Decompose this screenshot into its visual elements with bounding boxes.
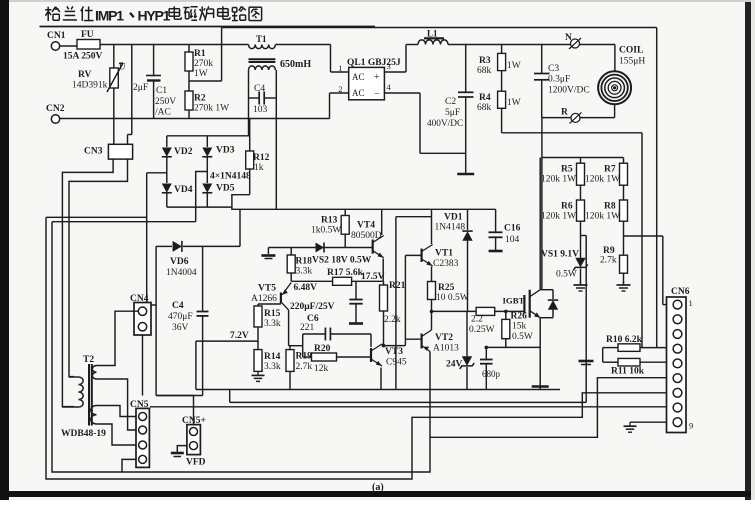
wire pin7 route (46, 217, 667, 479)
wire N bus y=118.5 (60, 118, 330, 120)
wire R1-R2 tap to top sense line (189, 80, 222, 82)
title (47, 7, 49, 21)
svg-text:AC: AC (352, 72, 365, 82)
svg-text:120k 1W: 120k 1W (541, 175, 576, 185)
svg-text:0.5W: 0.5W (512, 332, 533, 342)
wire VT1 collector (431, 209, 433, 244)
svg-text:A1013: A1013 (433, 344, 459, 354)
svg-text:VS1 9.1V: VS1 9.1V (541, 250, 579, 260)
svg-text:C2: C2 (445, 97, 456, 107)
svg-text:270k: 270k (194, 59, 213, 69)
wire VD6 anode column (155, 246, 157, 395)
wire CN3 to T2 primary top (69, 159, 128, 377)
svg-text:120k 1W: 120k 1W (541, 212, 576, 222)
svg-text:15A 250V: 15A 250V (63, 52, 102, 62)
svg-text:R5: R5 (561, 165, 573, 175)
wire T2 sec2 top to CN5 pin1 (97, 406, 137, 417)
svg-text:270k 1W: 270k 1W (194, 104, 229, 114)
svg-text:R9: R9 (603, 246, 615, 256)
svg-text:AC: AC (352, 88, 365, 98)
svg-text:VD5: VD5 (216, 184, 235, 194)
svg-text:103: 103 (253, 105, 268, 115)
svg-text:R25: R25 (438, 283, 455, 293)
wire coil top (614, 45, 616, 72)
svg-text:220μF/25V: 220μF/25V (290, 302, 335, 312)
wire IGBT collector column (541, 118, 543, 290)
wire DC+ bus y=44.5 (448, 44, 615, 46)
svg-text:1: 1 (338, 63, 342, 73)
wire IGBT emitter down (539, 318, 541, 390)
svg-text:C2383: C2383 (433, 259, 459, 269)
svg-text:CN1: CN1 (47, 31, 66, 41)
wire bridge mid-left to frame (147, 172, 167, 174)
wire CN5+ feed (155, 395, 157, 397)
svg-text:VD3: VD3 (216, 146, 235, 156)
svg-text:R12: R12 (253, 153, 270, 163)
page border bars (0, 0, 9, 500)
svg-text:1W: 1W (507, 61, 521, 71)
wire pin9 ground (630, 421, 667, 423)
svg-text:VT1: VT1 (435, 249, 453, 259)
wire CN3 pin2 up to L bus (131, 45, 133, 135)
svg-text:R8: R8 (604, 202, 616, 212)
wire VT5 collector down (288, 310, 290, 346)
ground IGBT emitter bar (532, 385, 549, 388)
svg-text:VD1: VD1 (444, 213, 463, 223)
svg-text:A1266: A1266 (251, 294, 277, 304)
svg-text:VD2: VD2 (174, 147, 193, 157)
wire bus B y=402.4 (230, 401, 587, 403)
ground mid bar (579, 360, 594, 363)
wire VT5 base to R15 (258, 303, 281, 305)
svg-text:VT2: VT2 (435, 333, 453, 343)
svg-text:2.7k: 2.7k (296, 362, 313, 372)
svg-text:COIL: COIL (619, 46, 643, 56)
svg-text:400V/DC: 400V/DC (427, 119, 463, 129)
svg-text:R6: R6 (561, 202, 573, 212)
wire QL1 pin4 to negative bus (384, 92, 420, 94)
svg-text:C4: C4 (172, 301, 184, 311)
svg-text:IGBT: IGBT (503, 296, 525, 306)
svg-text:VT4: VT4 (357, 221, 375, 231)
wire R26 bottom to emitter (486, 346, 540, 348)
svg-text:C16: C16 (504, 224, 521, 234)
svg-text:2: 2 (338, 84, 342, 94)
svg-text:R: R (561, 108, 568, 118)
svg-text:2μF: 2μF (133, 83, 148, 93)
svg-text:L1: L1 (427, 29, 438, 39)
svg-text:36V: 36V (172, 323, 189, 333)
capacitor C3 0.3uF 1200V/DC (541, 45, 543, 74)
svg-text:R13: R13 (321, 216, 338, 226)
svg-text:10 0.5W: 10 0.5W (436, 293, 469, 303)
svg-text:2.7k: 2.7k (600, 256, 617, 266)
wire C4e bottom rail (156, 395, 203, 397)
wire gate line y=311.4 (432, 310, 477, 312)
wire driver ground bus A y=389.5 (196, 389, 560, 391)
wire T1 right leg down (275, 70, 277, 209)
wire CN4 pin1 stub (151, 304, 156, 306)
wire pin6 route (52, 222, 667, 472)
svg-text:1N4004: 1N4004 (166, 268, 197, 278)
wire R4 bottom sense line to right (502, 132, 642, 134)
svg-text:T2: T2 (83, 355, 94, 365)
svg-text:−: − (374, 89, 380, 100)
svg-text:221: 221 (300, 323, 315, 333)
svg-text:VFD: VFD (186, 458, 206, 468)
svg-text:0.3μF: 0.3μF (548, 75, 570, 85)
svg-text:9: 9 (689, 421, 693, 431)
svg-text:/AC: /AC (155, 108, 171, 118)
svg-text:VS2 18V 0.5W: VS2 18V 0.5W (312, 256, 372, 266)
wire VT3 emitter down (380, 368, 382, 390)
svg-text:250V: 250V (155, 97, 176, 107)
svg-text:R2: R2 (194, 94, 206, 104)
svg-text:7.2V: 7.2V (230, 331, 249, 341)
wire CN3 to T2 primary bottom (62, 159, 113, 407)
svg-text:VT3: VT3 (385, 347, 403, 357)
svg-text:FU: FU (81, 30, 94, 40)
diode damper beside IGBT (540, 289, 553, 291)
svg-text:R15: R15 (264, 309, 281, 319)
wire frame top segments (46, 216, 147, 218)
wire T1 left leg down (248, 70, 250, 136)
svg-text:CN6: CN6 (671, 287, 690, 297)
wire T2 sec1 bottom to CN5 pin2 (97, 379, 137, 430)
svg-text:1N4148: 1N4148 (435, 223, 466, 233)
ground left of R18 (267, 248, 269, 255)
svg-text:R1: R1 (194, 49, 206, 59)
svg-text:HYP1: HYP1 (138, 8, 171, 24)
svg-text:VD4: VD4 (174, 185, 193, 195)
svg-text:4×1N4148: 4×1N4148 (210, 172, 251, 182)
svg-text:155μH: 155μH (619, 57, 645, 67)
wire VT1/VT2 base bus (405, 254, 421, 256)
wire pin8 long line (150, 406, 667, 408)
svg-text:15k: 15k (512, 322, 527, 332)
wire bridge mid-right to frame (196, 172, 208, 222)
wire bridge top rail (167, 135, 250, 137)
svg-text:3.3k: 3.3k (296, 267, 313, 277)
svg-text:68k: 68k (477, 103, 492, 113)
svg-text:14D391k: 14D391k (72, 81, 108, 91)
svg-text:(a): (a) (372, 482, 384, 493)
wire coil bottom (614, 104, 616, 117)
svg-text:IMP1: IMP1 (95, 8, 124, 24)
svg-text:68k: 68k (477, 66, 492, 76)
svg-text:5μF: 5μF (445, 108, 460, 118)
svg-text:R18: R18 (296, 257, 313, 267)
svg-text:470μF: 470μF (168, 312, 193, 322)
svg-text:CN3: CN3 (84, 147, 103, 157)
wire QL1 pin3 up to L1 (384, 71, 406, 73)
wire L bus y=45 (100, 44, 249, 46)
svg-text:3.3k: 3.3k (264, 319, 281, 329)
wire CN5 pin4 to frame (122, 459, 136, 472)
wire T2 sec2 bottom to CN5 pin3 (97, 424, 137, 445)
wire R5 rail (542, 157, 624, 159)
svg-text:104: 104 (505, 235, 520, 245)
wire CN4 pin2 down (142, 335, 144, 396)
svg-text:680p: 680p (482, 369, 501, 379)
svg-text:1W: 1W (507, 98, 521, 108)
capacitor C2 5uF 400V/DC (465, 45, 467, 93)
svg-text:T1: T1 (256, 34, 267, 44)
svg-text:6.48V: 6.48V (294, 283, 318, 293)
svg-text:VD6: VD6 (170, 257, 189, 267)
svg-text:C3: C3 (548, 64, 559, 74)
wire bridge bottom rail to 18V bus (167, 207, 496, 209)
svg-text:1: 1 (689, 298, 693, 308)
svg-text:VT5: VT5 (258, 284, 276, 294)
svg-text:C1: C1 (156, 86, 167, 96)
svg-text:0.25W: 0.25W (469, 325, 495, 335)
wire VT2 emitter down to bus (429, 352, 431, 438)
svg-text:CN2: CN2 (46, 104, 65, 114)
svg-text:+: + (374, 72, 380, 83)
ground under R14 (257, 371, 259, 375)
wire VT4 emitter to 17.5V rail (382, 259, 384, 282)
wire top sense to pin4 (656, 28, 658, 348)
svg-text:650mH: 650mH (280, 59, 311, 70)
svg-text:3.3k: 3.3k (264, 362, 281, 372)
svg-text:1k: 1k (254, 163, 264, 173)
svg-text:2.2k: 2.2k (384, 315, 401, 325)
svg-text:3: 3 (387, 61, 391, 71)
wire R8/R9 junction to CN6 pin1 (624, 235, 663, 237)
wire R6 bottom tap (581, 235, 587, 237)
svg-text:1W: 1W (194, 69, 208, 79)
wire VS2 to VT4 base (345, 247, 373, 249)
svg-text:17.5V: 17.5V (361, 272, 385, 282)
svg-text:R17 5.6k: R17 5.6k (327, 268, 364, 278)
svg-text:QL1 GBJ25J: QL1 GBJ25J (347, 58, 401, 68)
svg-text:R4: R4 (479, 93, 491, 103)
svg-text:R14: R14 (264, 352, 281, 362)
svg-text:1200V/DC: 1200V/DC (548, 86, 590, 96)
svg-text:R21: R21 (389, 281, 406, 291)
wire VD6 to 18V bus (239, 209, 241, 246)
svg-text:12k: 12k (314, 364, 329, 374)
wire CN1 to FU (60, 45, 77, 47)
wire R10/R11 left join (602, 348, 604, 363)
top sense line y=27.5 (222, 27, 657, 29)
wire T2 sec1 top to CN4 (97, 311, 139, 365)
svg-text:0.5W: 0.5W (556, 270, 577, 280)
svg-text:R7: R7 (604, 165, 616, 175)
svg-text:120k 1W: 120k 1W (585, 175, 620, 185)
svg-text:1k0.5W: 1k0.5W (311, 226, 341, 236)
svg-text:R3: R3 (479, 56, 491, 66)
svg-text:RV: RV (78, 70, 92, 80)
wire T1 to QL1 pin1 (275, 44, 330, 46)
svg-text:WDB48-19: WDB48-19 (61, 429, 106, 439)
svg-text:R11 10k: R11 10k (611, 367, 645, 377)
wire driver box edge (395, 217, 397, 390)
svg-text:120k 1W: 120k 1W (585, 212, 620, 222)
wire VT4 collector (381, 209, 383, 235)
wire CN3 pin up to RV column (113, 119, 115, 145)
